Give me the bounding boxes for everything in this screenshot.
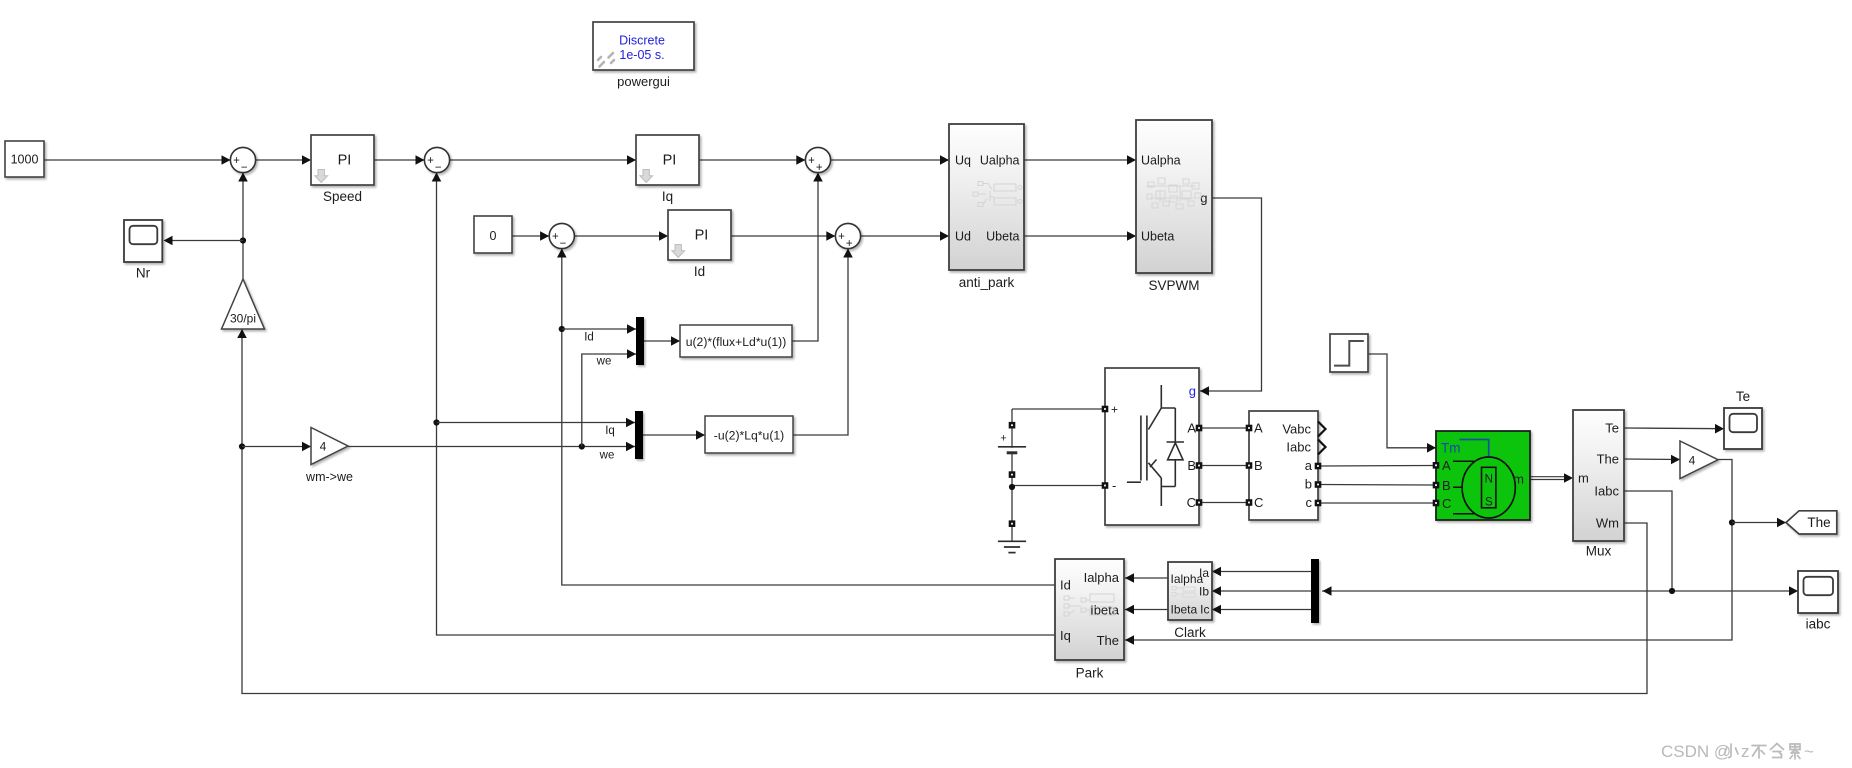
svg-text:Iabc: Iabc — [1594, 484, 1619, 499]
svg-text:4: 4 — [320, 440, 327, 454]
svg-text:Ubeta: Ubeta — [986, 230, 1019, 244]
svg-text:Iq: Iq — [1060, 628, 1071, 643]
svg-text:Ibeta: Ibeta — [1171, 603, 1198, 617]
svg-text:The: The — [1097, 633, 1119, 648]
svg-text:Te: Te — [1605, 421, 1619, 436]
svg-text:−: − — [560, 238, 567, 250]
svg-text:Vabc: Vabc — [1282, 422, 1311, 437]
svg-text:4: 4 — [1689, 453, 1696, 467]
svg-text:g: g — [1189, 384, 1196, 399]
svg-text:powergui: powergui — [617, 74, 670, 89]
svg-text:Wm: Wm — [1596, 516, 1619, 531]
svg-text:we: we — [596, 356, 612, 368]
svg-text:Id: Id — [1060, 578, 1071, 593]
svg-text:Ia: Ia — [1199, 566, 1209, 580]
svg-text:−: − — [435, 162, 442, 174]
svg-text:+: + — [552, 231, 559, 243]
svg-text:Speed: Speed — [323, 189, 362, 204]
svg-text:Uq: Uq — [955, 154, 971, 168]
svg-text:Iabc: Iabc — [1286, 440, 1311, 455]
svg-text:A: A — [1254, 421, 1263, 436]
svg-text:Ubeta: Ubeta — [1141, 230, 1174, 244]
svg-text:m: m — [1578, 471, 1589, 486]
svg-text:Id: Id — [694, 264, 705, 279]
svg-text:iabc: iabc — [1806, 617, 1831, 632]
svg-text:1000: 1000 — [11, 153, 39, 167]
svg-text:anti_park: anti_park — [959, 275, 1015, 290]
svg-text:1e-05 s.: 1e-05 s. — [619, 48, 664, 62]
svg-text:Te: Te — [1736, 389, 1750, 404]
svg-text:+: + — [838, 231, 845, 243]
svg-text:A: A — [1442, 458, 1451, 473]
svg-text:S: S — [1485, 497, 1493, 509]
svg-text:z: z — [1741, 742, 1750, 761]
svg-text:Clark: Clark — [1174, 625, 1206, 640]
svg-text:PI: PI — [338, 153, 352, 169]
svg-text:PI: PI — [695, 228, 709, 244]
svg-text:u(2)*(flux+Ld*u(1)): u(2)*(flux+Ld*u(1)) — [686, 335, 787, 349]
svg-text:−: − — [241, 162, 248, 174]
svg-text:Discrete: Discrete — [619, 34, 665, 48]
svg-text:~: ~ — [1804, 742, 1814, 761]
svg-text:30/pi: 30/pi — [230, 312, 256, 326]
svg-text:Iq: Iq — [605, 425, 615, 437]
svg-text:N: N — [1485, 474, 1493, 486]
svg-text:C: C — [1187, 495, 1196, 510]
svg-text:+: + — [1111, 403, 1118, 417]
svg-text:Ic: Ic — [1200, 603, 1209, 617]
svg-text:+: + — [816, 162, 823, 174]
svg-text:+: + — [1000, 433, 1006, 445]
svg-text:wm->we: wm->we — [305, 470, 353, 484]
svg-text:Nr: Nr — [136, 266, 151, 281]
svg-text:we: we — [599, 450, 615, 462]
svg-text:PI: PI — [663, 153, 677, 169]
svg-text:+: + — [427, 155, 434, 167]
svg-text:Mux: Mux — [1586, 544, 1612, 559]
svg-text:0: 0 — [490, 229, 497, 243]
svg-text:+: + — [808, 155, 815, 167]
svg-text:A: A — [1187, 421, 1196, 436]
svg-text:Tm: Tm — [1441, 441, 1461, 456]
svg-text:Ud: Ud — [955, 230, 971, 244]
svg-text:Park: Park — [1076, 666, 1104, 681]
svg-text:Ualpha: Ualpha — [980, 154, 1020, 168]
svg-text:CSDN @: CSDN @ — [1661, 742, 1731, 761]
svg-text:C: C — [1254, 495, 1263, 510]
svg-text:B: B — [1187, 458, 1196, 473]
svg-text:Ib: Ib — [1199, 585, 1209, 599]
svg-text:+: + — [233, 155, 240, 167]
svg-text:m: m — [1513, 472, 1524, 487]
svg-text:Ualpha: Ualpha — [1141, 154, 1181, 168]
svg-text:Ialpha: Ialpha — [1084, 570, 1120, 585]
svg-text:b: b — [1305, 477, 1312, 492]
svg-text:SVPWM: SVPWM — [1148, 278, 1199, 293]
svg-text:-: - — [1112, 478, 1116, 493]
svg-text:c: c — [1306, 495, 1313, 510]
svg-text:The: The — [1807, 515, 1830, 530]
svg-text:B: B — [1254, 458, 1263, 473]
svg-text:Id: Id — [584, 332, 594, 344]
svg-text:C: C — [1442, 496, 1451, 511]
svg-text:+: + — [846, 238, 853, 250]
svg-text:B: B — [1442, 478, 1451, 493]
svg-text:The: The — [1597, 452, 1619, 467]
svg-text:-u(2)*Lq*u(1): -u(2)*Lq*u(1) — [714, 429, 784, 443]
svg-text:a: a — [1305, 458, 1313, 473]
svg-text:Iq: Iq — [662, 189, 673, 204]
